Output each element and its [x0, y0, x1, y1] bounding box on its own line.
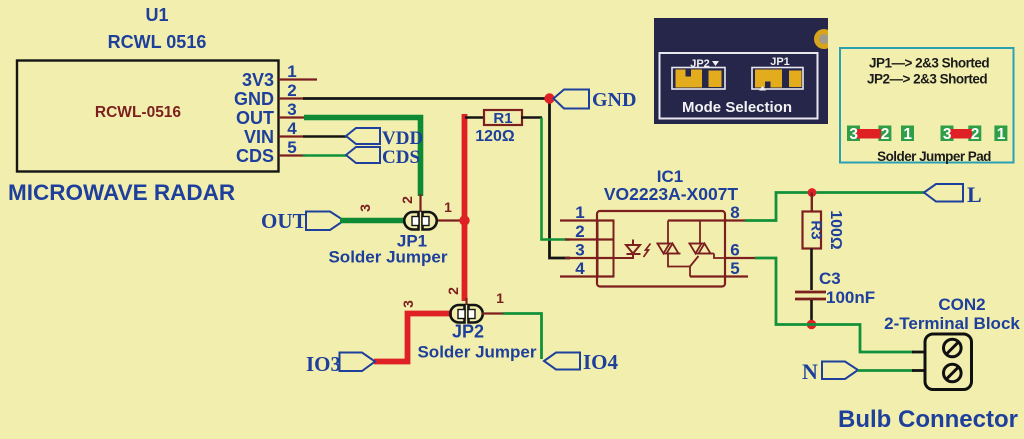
IC1 LED emission bolt	[644, 244, 651, 258]
IC1 pin 1 line	[560, 219, 614, 221]
svg-text:IO4: IO4	[583, 350, 619, 374]
svg-text:3: 3	[849, 126, 858, 143]
svg-text:MICROWAVE RADAR: MICROWAVE RADAR	[8, 180, 235, 205]
svg-text:4: 4	[287, 119, 297, 138]
wire green IC1 pin6 to CON2 top	[755, 258, 914, 352]
wire GND vertical down to IC1 pin3	[550, 99, 571, 259]
node GND junction dot	[544, 93, 554, 103]
svg-text:3: 3	[943, 126, 952, 143]
U1 pin 5 stub	[279, 154, 305, 156]
solder jumper JP2 glyph	[450, 305, 483, 323]
svg-text:VDD: VDD	[382, 128, 423, 149]
R3 top wire	[811, 193, 813, 213]
PCB JP1 pads	[755, 70, 782, 88]
IC1 triac 1	[657, 221, 691, 277]
svg-text:2-Terminal Block: 2-Terminal Block	[884, 314, 1020, 333]
N port tag	[822, 362, 858, 380]
PCB via pad gold circle	[814, 29, 834, 49]
CON2 screw terminal 2	[944, 364, 962, 382]
svg-text:IO3: IO3	[306, 352, 341, 376]
U1 body RCWL-0516 box	[17, 61, 279, 172]
svg-text:3: 3	[400, 300, 416, 308]
wire green N to CON2 bottom	[858, 369, 914, 372]
svg-text:RCWL-0516: RCWL-0516	[95, 104, 182, 121]
svg-text:Solder Jumper: Solder Jumper	[417, 343, 536, 362]
IC1 triac 2	[689, 221, 726, 267]
svg-text:1: 1	[496, 290, 504, 306]
U1 pin 1 stub	[279, 78, 317, 80]
svg-text:1: 1	[287, 62, 296, 81]
solder jumper JP1 glyph	[404, 212, 437, 230]
IC1 pin 6 line	[725, 257, 756, 259]
node JP1-R1 junction dot	[459, 215, 469, 225]
wire green R1 to IC1 pin2	[542, 118, 571, 240]
svg-text:1: 1	[997, 126, 1006, 143]
svg-text:R1: R1	[493, 110, 512, 127]
R1 left wire	[465, 116, 485, 119]
svg-text:VIN: VIN	[244, 127, 274, 147]
svg-text:5: 5	[287, 138, 296, 157]
PCB silkscreen frame	[660, 53, 818, 119]
wire green IC1 pin8 to L	[745, 193, 924, 221]
JP2 pin1 stub	[482, 312, 504, 314]
svg-text:CON2: CON2	[938, 295, 985, 314]
JP1 pin1 stub	[436, 219, 462, 221]
node R3 top junction dot	[808, 188, 817, 197]
C3 bottom wire	[810, 300, 813, 325]
OUT port tag	[306, 212, 344, 231]
legend pad group 1	[847, 126, 914, 143]
legend pad group 2	[941, 126, 1008, 143]
svg-text:RCWL 0516: RCWL 0516	[108, 32, 207, 52]
svg-text:Mode Selection: Mode Selection	[682, 99, 792, 116]
IC1 pin 2 line	[565, 238, 614, 240]
svg-text:3V3: 3V3	[242, 70, 274, 90]
CON2 terminal block body	[925, 334, 972, 390]
svg-text:JP1—> 2&3 Shorted: JP1—> 2&3 Shorted	[869, 56, 989, 71]
VDD port tag	[346, 128, 380, 144]
CON2 screw terminal 1	[944, 339, 962, 357]
wire GND (U1 pin2 to GND node) black	[303, 97, 550, 100]
PCB JP1 pad frame	[752, 68, 803, 90]
L port tag	[924, 184, 963, 202]
svg-text:R3: R3	[808, 220, 825, 239]
svg-text:1: 1	[444, 199, 452, 215]
svg-text:CDS: CDS	[382, 147, 420, 168]
IC1 LED symbol	[614, 240, 641, 259]
CDS port tag	[346, 147, 380, 163]
svg-text:2: 2	[445, 287, 461, 295]
svg-text:OUT: OUT	[261, 209, 307, 233]
Solder Jumper Pad legend box	[840, 48, 1014, 163]
svg-text:6: 6	[730, 241, 739, 260]
IO3 port tag	[340, 353, 376, 372]
svg-text:100nF: 100nF	[826, 288, 875, 307]
resistor R1 box	[484, 110, 522, 125]
svg-text:L: L	[967, 182, 982, 207]
IC1 body box	[597, 211, 725, 287]
svg-text:2: 2	[971, 126, 980, 143]
IC1 pin 3 line	[565, 257, 614, 259]
wire red vertical (JP1 pin1 / R1 / JP2)	[462, 114, 468, 301]
svg-text:4: 4	[575, 259, 585, 278]
svg-text:2: 2	[575, 222, 584, 241]
IC1 pin 4 line	[560, 275, 614, 277]
svg-text:120Ω: 120Ω	[475, 128, 515, 145]
R1 right wire	[521, 116, 542, 119]
svg-text:3: 3	[575, 241, 584, 260]
svg-text:JP2: JP2	[452, 322, 484, 342]
svg-text:8: 8	[730, 203, 739, 222]
svg-text:3: 3	[357, 204, 373, 212]
svg-text:5: 5	[730, 259, 739, 278]
wire U1 pin4 to VDD black	[303, 135, 347, 138]
wire red IO3 to JP2	[374, 314, 452, 362]
CON2 top stub	[912, 351, 926, 354]
svg-text:3: 3	[287, 100, 296, 119]
capacitor C3 plates	[795, 291, 826, 294]
wire U1 pin3 OUT thick green	[304, 118, 421, 197]
JP1 pin2 stub	[419, 194, 421, 212]
svg-text:Solder Jumper Pad: Solder Jumper Pad	[877, 149, 991, 164]
svg-text:1: 1	[903, 126, 912, 143]
PCB JP2 pads	[676, 70, 703, 88]
svg-text:GND: GND	[592, 89, 636, 111]
IO4 port tag	[544, 353, 580, 370]
Mode Selection PCB photo	[654, 18, 834, 124]
svg-text:JP2—> 2&3 Shorted: JP2—> 2&3 Shorted	[867, 72, 987, 87]
U1 pin 3 stub	[279, 116, 306, 118]
U1 pin 2 stub	[279, 97, 305, 99]
JP2 pin2 stub	[465, 298, 467, 305]
svg-text:U1: U1	[145, 5, 168, 25]
resistor R3 box	[803, 212, 822, 249]
CON2 bottom stub	[912, 369, 926, 372]
svg-text:VO2223A-X007T: VO2223A-X007T	[604, 184, 739, 204]
svg-text:2: 2	[881, 126, 890, 143]
svg-text:2: 2	[287, 81, 296, 100]
wire green JP2 pin1 to IO4	[503, 314, 542, 360]
svg-text:GND: GND	[234, 89, 274, 109]
svg-text:Bulb Connector: Bulb Connector	[838, 406, 1018, 433]
svg-text:OUT: OUT	[236, 108, 274, 128]
svg-text:CDS: CDS	[236, 146, 274, 166]
svg-text:C3: C3	[819, 269, 841, 288]
U1 pin 4 stub	[279, 135, 305, 137]
svg-text:100Ω: 100Ω	[827, 210, 844, 250]
IC1 input side bar	[598, 221, 614, 277]
PCB JP2 pad frame	[672, 68, 725, 90]
node C3 bottom junction dot	[807, 320, 817, 330]
GND port tag	[554, 90, 590, 109]
IC1 pin 5 line	[690, 275, 748, 277]
svg-text:N: N	[802, 359, 818, 384]
IC1 pin 8 line	[668, 219, 746, 221]
R3 bottom wire	[810, 249, 813, 291]
wire U1 pin5 to CDS green	[303, 154, 347, 156]
svg-text:JP1: JP1	[770, 56, 790, 68]
svg-text:Solder Jumper: Solder Jumper	[328, 248, 447, 267]
wire OUT to JP1 thick green	[340, 218, 404, 224]
svg-text:1: 1	[575, 203, 584, 222]
svg-text:2: 2	[399, 196, 415, 204]
